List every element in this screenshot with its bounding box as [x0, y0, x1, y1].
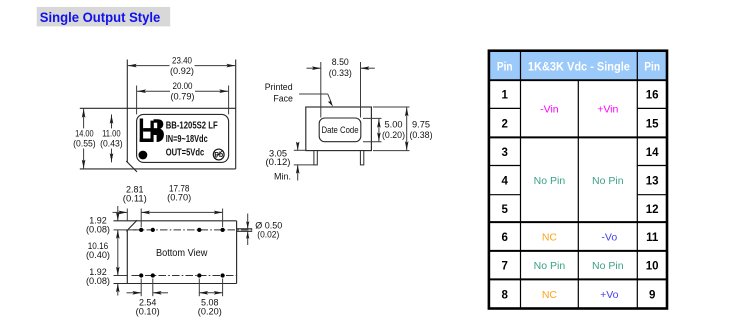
svg-text:Single Output Style: Single Output Style [40, 9, 161, 25]
pin table: row lines [489, 80, 667, 279]
svg-text:(0.40): (0.40) [86, 250, 110, 260]
dim 11.00 (0.43) [99, 114, 124, 162]
dim 20.00 (0.79) [137, 81, 229, 101]
svg-text:9: 9 [649, 289, 655, 301]
page title [37, 7, 171, 26]
dim 3.05 (0.12) Min. [266, 142, 314, 182]
svg-text:10: 10 [646, 261, 659, 273]
svg-text:-Vo: -Vo [601, 232, 617, 244]
svg-text:1: 1 [501, 90, 508, 102]
svg-text:Bottom View: Bottom View [156, 247, 208, 259]
svg-text:11.00: 11.00 [102, 129, 121, 139]
svg-text:6: 6 [501, 232, 507, 244]
svg-text:(0.92): (0.92) [170, 66, 194, 76]
svg-text:(0.79): (0.79) [171, 91, 195, 101]
side view left pin [314, 151, 317, 165]
pin table: signal cells [534, 103, 624, 301]
svg-text:(0.38): (0.38) [410, 130, 433, 140]
svg-text:(0.12): (0.12) [266, 157, 291, 167]
svg-text:Pin: Pin [644, 62, 660, 74]
svg-text:9.75: 9.75 [412, 119, 430, 129]
dim 2.54 (0.10) [127, 279, 169, 317]
top view: package outline (body) [80, 60, 236, 172]
svg-text:20.00: 20.00 [173, 81, 193, 91]
pin table: right pin numbers [646, 90, 659, 302]
svg-text:13: 13 [646, 175, 659, 187]
svg-text:BB-1205S2 LF: BB-1205S2 LF [166, 120, 218, 131]
svg-text:(0.10): (0.10) [136, 307, 160, 317]
pin table: header text [497, 62, 660, 74]
svg-text:OUT=5Vdc: OUT=5Vdc [166, 147, 205, 158]
svg-text:(0.02): (0.02) [257, 229, 279, 239]
svg-text:(0.70): (0.70) [167, 193, 191, 203]
svg-text:Pin: Pin [497, 62, 513, 74]
pin table: column lines [521, 51, 638, 309]
svg-text:(0.20): (0.20) [382, 130, 405, 140]
svg-text:(0.20): (0.20) [198, 307, 222, 317]
dim 14.00 (0.55) [72, 108, 97, 169]
svg-text:11: 11 [646, 232, 659, 244]
svg-text:1K&3K Vdc - Single: 1K&3K Vdc - Single [528, 62, 630, 74]
svg-text:+Vo: +Vo [600, 289, 619, 301]
svg-text:15: 15 [646, 118, 659, 130]
pin dots [139, 228, 225, 278]
svg-text:2: 2 [501, 118, 507, 130]
dim 23.40 (0.92) [127, 55, 235, 75]
20.00 dim extension lines [137, 86, 229, 115]
printed face label and leader arrow [265, 82, 335, 108]
svg-text:5: 5 [501, 204, 508, 216]
dims 1.92 / 10.16 / 1.92 stack [86, 206, 120, 296]
svg-text:NC: NC [542, 289, 558, 301]
dim 8.50 (0.33) [307, 57, 375, 118]
svg-text:14: 14 [646, 147, 659, 159]
svg-text:(0.08): (0.08) [86, 276, 110, 286]
bottom view: outline with chamfer [114, 209, 237, 284]
svg-text:(0.33): (0.33) [329, 68, 352, 78]
svg-text:7: 7 [501, 261, 507, 273]
svg-text:(0.43): (0.43) [100, 138, 123, 148]
svg-text:+Vin: +Vin [597, 103, 618, 115]
dim 9.75 (0.38) [373, 107, 433, 151]
svg-text:8: 8 [501, 289, 508, 301]
side view: package body [306, 107, 372, 151]
dim 5.08 (0.20) [198, 279, 223, 317]
dim 5.00 (0.20) [363, 118, 405, 141]
left extension lines [114, 230, 137, 276]
svg-text:16: 16 [646, 90, 659, 102]
svg-text:(0.08): (0.08) [86, 224, 110, 234]
Pb-free symbol [213, 149, 224, 160]
svg-text:14.00: 14.00 [75, 129, 94, 139]
svg-text:(0.11): (0.11) [123, 194, 147, 204]
svg-text:12: 12 [646, 204, 659, 216]
svg-text:-Vin: -Vin [540, 103, 559, 115]
svg-text:(0.55): (0.55) [73, 138, 96, 148]
dim 17.78 (0.70) [141, 183, 222, 227]
svg-text:Min.: Min. [274, 172, 291, 182]
dim pin diameter 0.50 (0.02) [246, 214, 282, 246]
pin row centerline (top) [133, 229, 252, 231]
svg-text:NC: NC [542, 232, 558, 244]
pin profile extension (right) [237, 229, 253, 232]
svg-text:No Pin: No Pin [592, 175, 624, 187]
pin table: header background [489, 51, 667, 80]
pin 1 dot marker [139, 151, 148, 160]
svg-text:8.50: 8.50 [332, 57, 349, 67]
svg-text:No Pin: No Pin [534, 260, 566, 272]
svg-text:23.40: 23.40 [172, 55, 192, 65]
manufacturer logo [140, 119, 164, 143]
svg-text:No Pin: No Pin [592, 260, 624, 272]
svg-text:5.00: 5.00 [385, 119, 403, 129]
svg-text:Printed: Printed [265, 82, 293, 92]
svg-text:3: 3 [501, 147, 507, 159]
side view right pin [360, 151, 363, 165]
date code box [319, 118, 361, 142]
svg-text:Face: Face [273, 94, 293, 104]
dim 2.81 (0.11) [113, 184, 147, 214]
svg-text:4: 4 [501, 175, 508, 187]
pin row centerline (bottom) [132, 275, 237, 277]
svg-text:No Pin: No Pin [534, 175, 566, 187]
svg-text:Date Code: Date Code [322, 125, 359, 135]
pin table: left pin numbers [501, 90, 508, 302]
svg-text:IN=9~18Vdc: IN=9~18Vdc [166, 134, 208, 145]
top view: inner rounded label area [137, 114, 229, 162]
pin table: outer border [489, 51, 667, 309]
